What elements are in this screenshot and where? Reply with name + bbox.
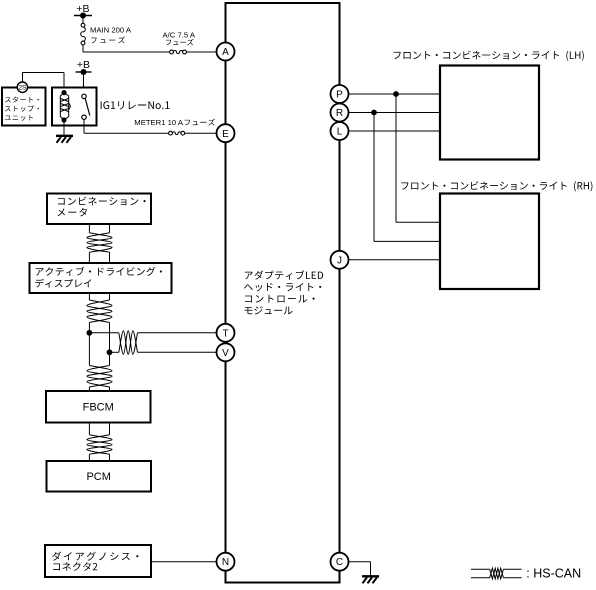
svg-text:C: C	[336, 557, 343, 568]
svg-text:R: R	[336, 108, 343, 119]
svg-text:: HS-CAN: : HS-CAN	[526, 567, 581, 581]
svg-text:E: E	[222, 129, 229, 140]
svg-text:L: L	[337, 127, 343, 138]
svg-text:T: T	[222, 328, 228, 339]
svg-text:A: A	[222, 47, 229, 58]
svg-text:V: V	[222, 348, 229, 359]
svg-text:METER1 10 A: METER1 10 A	[134, 118, 184, 127]
svg-text:P: P	[336, 90, 343, 101]
svg-text:2S: 2S	[18, 85, 27, 92]
svg-text:FBCM: FBCM	[83, 402, 114, 414]
svg-text:PCM: PCM	[86, 471, 110, 483]
svg-text:N: N	[222, 557, 229, 568]
svg-text:A/C 7.5 A: A/C 7.5 A	[163, 31, 196, 40]
svg-text:J: J	[337, 255, 342, 266]
svg-text:MAIN 200 A: MAIN 200 A	[90, 25, 132, 34]
